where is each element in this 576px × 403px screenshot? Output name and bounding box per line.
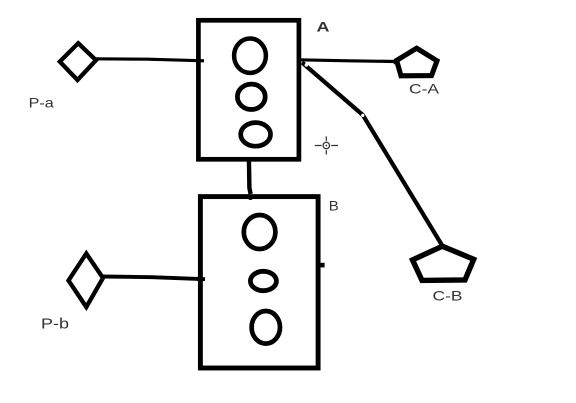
svg-text:A: A: [317, 19, 330, 34]
crosshair cursor: [315, 136, 338, 154]
circle A3: [241, 123, 271, 147]
wire A to C-A: [299, 60, 395, 62]
pentagon C-A: [397, 48, 437, 76]
circle A1: [234, 39, 266, 73]
circle A2: [237, 84, 265, 109]
wire P-a to A: [95, 59, 204, 61]
pentagon C-B: [413, 246, 474, 280]
svg-text:P-a: P-a: [29, 94, 54, 110]
svg-text:P-b: P-b: [41, 317, 69, 333]
rectangle B: [200, 197, 318, 368]
circle B3: [252, 311, 280, 344]
circle B1: [244, 215, 276, 249]
wire P-b to B: [103, 277, 205, 280]
crosshair center dot: [325, 145, 327, 147]
wire P-b nub inside B: [197, 277, 205, 281]
svg-text:C-B: C-B: [433, 287, 463, 303]
svg-text:C-A: C-A: [409, 80, 440, 96]
diamond P-b: [69, 254, 104, 308]
wire A to B (vertical connector): [249, 158, 251, 194]
vertex dot on diagonal start: [305, 63, 309, 67]
connector end blob at B top edge: [248, 195, 253, 200]
vertex dot on diagonal mid: [361, 114, 364, 117]
svg-text:B: B: [329, 198, 339, 213]
wire P-a nub inside A: [196, 59, 204, 62]
rectangle A: [198, 20, 299, 159]
wire A to C-B (diagonal): [302, 63, 443, 247]
stub on right edge of B: [320, 263, 325, 268]
diamond P-a: [60, 43, 96, 80]
wire end blob at C-A: [393, 59, 398, 64]
circle B2: [250, 271, 276, 290]
